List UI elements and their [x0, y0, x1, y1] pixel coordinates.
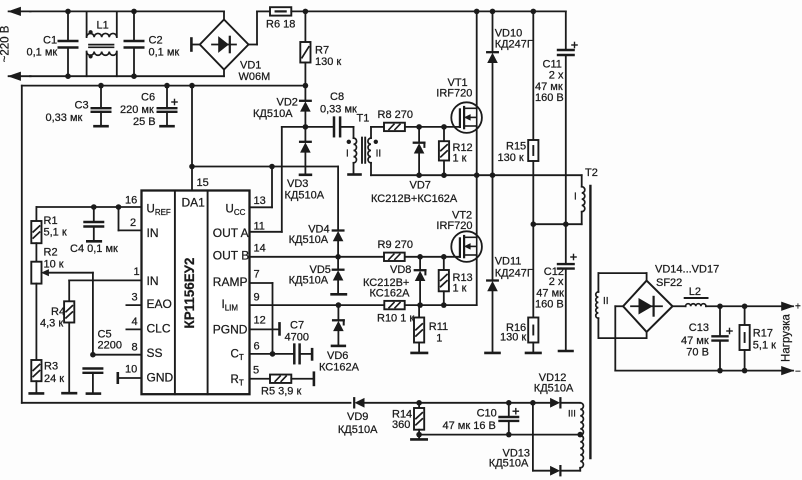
svg-text:C8: C8: [330, 91, 344, 103]
resistor R17: [740, 306, 777, 370]
label IN pin2: [147, 226, 159, 240]
wire output plus rail: [706, 301, 801, 312]
svg-text:R6 18: R6 18: [266, 19, 295, 31]
svg-text:VD1: VD1: [240, 60, 261, 72]
svg-text:5: 5: [253, 365, 259, 377]
resistor R8: [378, 109, 460, 131]
svg-text:GND: GND: [147, 371, 174, 385]
svg-text:R5 3,9 к: R5 3,9 к: [261, 386, 301, 398]
svg-text:VD6: VD6: [327, 350, 348, 362]
resistor R5: [261, 373, 314, 398]
svg-text:C4 0,1 мк: C4 0,1 мк: [70, 243, 118, 255]
label IN pin1: [147, 274, 159, 288]
svg-text:КД510А: КД510А: [285, 190, 325, 202]
svg-text:КД510А: КД510А: [289, 274, 329, 286]
pin 6 wire: [250, 341, 295, 357]
wire bottom rail: [22, 400, 550, 406]
svg-text:1: 1: [436, 332, 442, 344]
wire left border: [21, 86, 23, 403]
svg-text:I: I: [346, 149, 349, 160]
svg-text:КД247Г: КД247Г: [495, 38, 533, 50]
label OUT B: [213, 249, 249, 263]
svg-text:5,1 к: 5,1 к: [753, 339, 776, 351]
svg-text:VD14...VD17: VD14...VD17: [655, 264, 719, 276]
svg-text:4700: 4700: [285, 332, 309, 344]
resistor R3: [30, 360, 65, 393]
svg-text:10: 10: [125, 364, 137, 376]
svg-text:EAO: EAO: [147, 297, 172, 311]
pin 10 wire: [118, 364, 142, 383]
capacitor C12: [535, 224, 576, 351]
diode VD13 branch: [489, 403, 580, 476]
svg-text:25 В: 25 В: [133, 116, 156, 128]
wire R15 to T2 node: [531, 161, 537, 227]
svg-text:T2: T2: [585, 167, 598, 179]
svg-text:R10 1 к: R10 1 к: [377, 313, 414, 325]
svg-text:~220 В: ~220 В: [0, 25, 12, 62]
svg-text:+: +: [795, 301, 801, 312]
node OUTA junction: [282, 124, 333, 130]
svg-text:1: 1: [134, 266, 140, 278]
wire bridge minus down: [615, 306, 623, 370]
capacitor C10: [443, 403, 519, 435]
svg-text:0,1 мк: 0,1 мк: [149, 47, 180, 59]
svg-text:VD2: VD2: [277, 97, 298, 109]
inductor L2: [673, 286, 708, 306]
svg-text:VD7: VD7: [410, 180, 431, 192]
diode VD3: [285, 127, 325, 202]
svg-text:R2: R2: [44, 247, 58, 259]
svg-text:1 к: 1 к: [453, 153, 467, 165]
svg-text:130 к: 130 к: [315, 56, 341, 68]
svg-text:12: 12: [254, 315, 266, 327]
diode VD11: [486, 175, 533, 353]
svg-text:IN: IN: [147, 226, 159, 240]
pin 13 wire: [250, 167, 273, 208]
svg-text:R11: R11: [429, 321, 448, 333]
label DA1: [182, 196, 206, 210]
potentiometer R2: [31, 247, 93, 284]
capacitor C7: [285, 320, 313, 364]
resistor R15: [498, 11, 539, 164]
diode VD2: [253, 86, 311, 127]
pin 16 wire: [36, 195, 141, 222]
svg-text:КД247Г: КД247Г: [495, 268, 533, 280]
svg-text:R7: R7: [315, 45, 329, 57]
svg-text:R9 270: R9 270: [378, 239, 413, 251]
capacitor C2: [125, 9, 180, 79]
pin 8 wire: [90, 342, 141, 358]
svg-text:C2: C2: [149, 35, 163, 47]
svg-text:КД510А: КД510А: [253, 108, 293, 120]
capacitor C13: [681, 306, 732, 370]
diode VD9: [338, 398, 378, 436]
svg-text:C1: C1: [43, 35, 57, 47]
label ILIM: [222, 299, 239, 313]
svg-text:VD3: VD3: [287, 178, 308, 190]
svg-text:IRF720: IRF720: [436, 88, 472, 100]
resistor R4: [40, 301, 76, 393]
svg-text:C6: C6: [141, 92, 155, 104]
label RAMP: [213, 275, 248, 289]
transistor VT2: [436, 175, 482, 305]
diode VD4: [289, 167, 344, 257]
pin 9 wire ILIM: [250, 292, 477, 308]
svg-text:R15: R15: [506, 141, 526, 153]
wire low-voltage bus: [22, 83, 308, 89]
svg-text:КС162А: КС162А: [370, 288, 411, 300]
resistor R1: [31, 215, 67, 243]
svg-text:47 мк: 47 мк: [681, 335, 709, 347]
wire mid bus: [371, 172, 582, 178]
svg-text:OUT B: OUT B: [213, 249, 249, 263]
svg-text:R8 270: R8 270: [378, 109, 413, 121]
svg-text:9: 9: [254, 292, 260, 304]
svg-text:11: 11: [254, 221, 265, 233]
pin 1 wire: [69, 266, 141, 301]
svg-text:L2: L2: [689, 286, 701, 298]
wire top DC bus: [291, 9, 566, 15]
diode VD12: [534, 372, 580, 407]
wire R1-R2: [35, 243, 37, 262]
svg-text:160 В: 160 В: [535, 299, 564, 311]
transformer T2 core: [589, 186, 591, 458]
pin 5 wire: [250, 365, 271, 379]
svg-text:2 х: 2 х: [549, 70, 564, 82]
svg-text:15: 15: [197, 177, 209, 189]
label PGND: [213, 323, 248, 337]
svg-text:T1: T1: [357, 113, 370, 125]
resistor R14: [392, 403, 427, 440]
svg-text:VD11: VD11: [495, 256, 522, 268]
svg-text:1 к: 1 к: [453, 282, 467, 294]
svg-text:C13: C13: [689, 322, 709, 334]
transistor VT1: [436, 11, 482, 175]
pin 2 wire: [119, 207, 142, 230]
svg-text:КД510А: КД510А: [338, 424, 378, 436]
svg-text:C10: C10: [477, 408, 497, 420]
svg-text:II: II: [603, 296, 609, 307]
svg-text:4,3 к: 4,3 к: [40, 318, 63, 330]
pin 15 lead: [192, 167, 209, 191]
inductor L1: [87, 11, 117, 76]
label OUT A: [213, 226, 249, 240]
svg-text:W06M: W06M: [239, 71, 271, 83]
svg-text:14: 14: [254, 243, 266, 255]
svg-text:C7: C7: [290, 320, 304, 332]
zener VD7: [371, 127, 458, 205]
svg-text:4: 4: [132, 316, 138, 328]
svg-text:Нагрузка: Нагрузка: [781, 313, 793, 361]
svg-text:0,1 мк: 0,1 мк: [27, 47, 58, 59]
zener VD6: [319, 305, 360, 373]
wire AC line top with arrow: [9, 7, 224, 19]
capacitor C3: [46, 86, 111, 127]
svg-text:−: −: [795, 367, 801, 378]
svg-text:130 к: 130 к: [500, 332, 526, 344]
svg-text:10 к: 10 к: [44, 259, 64, 271]
svg-text:I: I: [574, 192, 577, 203]
svg-text:RAMP: RAMP: [213, 275, 248, 289]
label UREF: [147, 204, 171, 218]
svg-text:II: II: [376, 149, 382, 160]
capacitor C4: [70, 207, 118, 255]
svg-text:160 В: 160 В: [535, 92, 564, 104]
svg-text:IRF720: IRF720: [436, 220, 472, 232]
diode VD10: [487, 11, 533, 175]
svg-text:PGND: PGND: [213, 323, 248, 337]
resistor R16: [500, 224, 541, 353]
svg-text:OUT A: OUT A: [213, 226, 249, 240]
capacitor C8: [320, 91, 357, 138]
svg-text:7: 7: [254, 269, 260, 281]
wire Vcc node horizontal: [192, 164, 338, 170]
svg-text:SF22: SF22: [656, 277, 682, 289]
svg-text:0,33 мк: 0,33 мк: [320, 104, 357, 116]
svg-text:КР1156ЕУ2: КР1156ЕУ2: [182, 258, 197, 329]
svg-text:КС162А: КС162А: [319, 361, 360, 373]
svg-text:C3: C3: [75, 100, 89, 112]
pin 3 stub: [126, 292, 141, 306]
svg-text:R4: R4: [51, 306, 65, 318]
resistor R13: [439, 257, 473, 305]
pin 7 wire: [250, 269, 273, 354]
svg-text:КД510А: КД510А: [289, 234, 329, 246]
pin 12 wire: [250, 315, 280, 335]
transformer T2 secondary II: [596, 273, 647, 338]
svg-text:2200: 2200: [98, 340, 122, 352]
svg-text:3: 3: [132, 292, 138, 304]
transformer T2 winding III: [568, 403, 583, 468]
capacitor C11: [535, 11, 577, 224]
svg-text:5,1 к: 5,1 к: [44, 227, 67, 239]
resistor R9: [378, 239, 413, 261]
transformer T1: [346, 113, 384, 176]
label ~220 В: [0, 25, 12, 62]
pin 11 wire: [250, 127, 282, 233]
wire half-bridge node: [533, 212, 581, 227]
svg-text:130 к: 130 к: [498, 152, 524, 164]
resistor R7: [300, 11, 341, 85]
label UCC: [226, 204, 246, 218]
svg-text:R1: R1: [44, 215, 58, 227]
svg-text:R17: R17: [753, 328, 773, 340]
transformer T2 primary I: [574, 167, 598, 212]
wire bridge DC+ to bus: [249, 11, 271, 44]
bridge rectifier VD1: [191, 20, 270, 84]
label EAO: [147, 297, 172, 311]
svg-text:2 х: 2 х: [549, 276, 564, 288]
diode VD5: [289, 257, 346, 295]
wire output minus rail: [615, 366, 801, 377]
svg-text:13: 13: [254, 195, 266, 207]
svg-text:КС212В+КС162А: КС212В+КС162А: [371, 193, 458, 205]
svg-text:2: 2: [130, 217, 136, 229]
wire aux rail: [419, 432, 583, 438]
svg-text:16: 16: [125, 195, 137, 207]
capacitor C1: [27, 9, 78, 79]
svg-text:47 мк: 47 мк: [536, 287, 564, 299]
wire Vcc node vertical: [189, 86, 195, 170]
svg-text:360: 360: [392, 419, 410, 431]
svg-text:0,33 мк: 0,33 мк: [46, 112, 83, 124]
svg-text:IN: IN: [147, 274, 159, 288]
zener VD8: [363, 257, 425, 305]
wire R2-R3: [35, 284, 37, 360]
resistor R6: [266, 7, 295, 30]
svg-text:R3: R3: [44, 361, 58, 373]
label CT: [231, 348, 244, 362]
pin 4 stub: [126, 316, 141, 329]
svg-text:VD8: VD8: [390, 264, 411, 276]
svg-text:SS: SS: [147, 346, 163, 360]
resistor R12: [439, 127, 473, 175]
svg-text:70 В: 70 В: [686, 346, 709, 358]
svg-text:III: III: [568, 408, 576, 419]
label SS: [147, 346, 163, 360]
svg-text:6: 6: [254, 341, 260, 353]
svg-text:24 к: 24 к: [44, 373, 64, 385]
svg-text:CLC: CLC: [147, 321, 171, 335]
wire R2 wiper to C5: [92, 273, 94, 355]
capacitor C5: [84, 329, 122, 394]
resistor R10: [377, 301, 414, 325]
bridge rectifier VD14...VD17: [623, 264, 719, 332]
label Нагрузка: [781, 313, 793, 361]
label GND: [147, 371, 174, 385]
label RT: [231, 374, 244, 388]
svg-text:DA1: DA1: [182, 196, 206, 210]
label КР1156ЕУ2: [182, 258, 197, 329]
IC DA1 box: [142, 191, 250, 395]
svg-text:L1: L1: [97, 20, 109, 32]
svg-text:VD9: VD9: [347, 411, 368, 423]
svg-text:КД510А: КД510А: [489, 457, 529, 469]
pin 14 wire OUT B: [250, 243, 460, 260]
capacitor C6: [120, 86, 177, 128]
svg-text:47 мк 16 В: 47 мк 16 В: [443, 420, 496, 432]
svg-text:220 мк: 220 мк: [120, 104, 154, 116]
label CLC: [147, 321, 171, 335]
svg-text:КД510А: КД510А: [534, 382, 574, 394]
wire AC line bottom with arrow: [9, 70, 224, 81]
resistor R11: [412, 305, 449, 353]
svg-text:8: 8: [132, 342, 138, 354]
